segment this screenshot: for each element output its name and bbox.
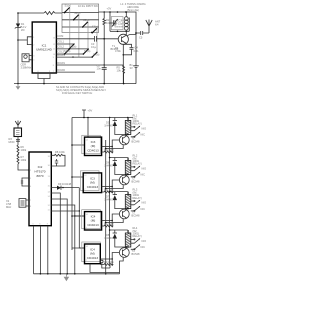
svg-text:BC548: BC548 bbox=[132, 214, 140, 218]
svg-text:470k: 470k bbox=[115, 49, 121, 53]
svg-text:(M): (M) bbox=[91, 144, 96, 148]
svg-text:S1(a): S1(a) bbox=[65, 4, 71, 8]
svg-text:ZD: ZD bbox=[21, 28, 25, 32]
svg-text:+3V: +3V bbox=[107, 7, 112, 11]
svg-text:3.58MHz: 3.58MHz bbox=[21, 66, 32, 70]
svg-text:R8 100k: R8 100k bbox=[55, 150, 65, 154]
svg-text:1N4007: 1N4007 bbox=[104, 124, 114, 128]
svg-text:C4: C4 bbox=[135, 46, 139, 50]
svg-text:S1(b): S1(b) bbox=[70, 44, 76, 48]
svg-text:C5: C5 bbox=[139, 36, 143, 40]
svg-text:R13 10k: R13 10k bbox=[104, 260, 114, 264]
svg-text:N/C: N/C bbox=[141, 173, 146, 177]
svg-text:S3(b): S3(b) bbox=[84, 49, 90, 53]
svg-text:N/O: N/O bbox=[142, 239, 147, 243]
svg-text:BC548: BC548 bbox=[132, 140, 140, 144]
svg-text:RELAY): RELAY) bbox=[133, 122, 142, 126]
svg-text:N/C: N/C bbox=[141, 133, 146, 137]
svg-text:S4(a): S4(a) bbox=[92, 25, 98, 29]
svg-text:BC548: BC548 bbox=[132, 180, 140, 184]
svg-text:CD4013: CD4013 bbox=[87, 149, 99, 153]
svg-text:1N4007: 1N4007 bbox=[104, 236, 114, 240]
svg-text:3V: 3V bbox=[130, 66, 133, 70]
svg-text:RELAY): RELAY) bbox=[133, 196, 142, 200]
svg-text:ROW1: ROW1 bbox=[57, 61, 65, 65]
svg-text:MOD: MOD bbox=[9, 140, 15, 144]
svg-text:100k: 100k bbox=[21, 148, 27, 152]
svg-text:HT9170: HT9170 bbox=[34, 170, 45, 174]
svg-text:COL2: COL2 bbox=[57, 44, 64, 48]
svg-text:S3(a): S3(a) bbox=[83, 18, 89, 22]
svg-text:S4(b): S4(b) bbox=[93, 53, 99, 57]
svg-text:N/O: N/O bbox=[142, 201, 147, 205]
svg-text:N/O: N/O bbox=[142, 167, 147, 171]
svg-text:S2(a): S2(a) bbox=[74, 11, 80, 15]
svg-text:N/C: N/C bbox=[141, 207, 146, 211]
svg-text:(M): (M) bbox=[90, 181, 95, 185]
svg-text:RELAY): RELAY) bbox=[133, 162, 142, 166]
svg-text:10n: 10n bbox=[97, 67, 102, 71]
svg-text:RELAY): RELAY) bbox=[133, 234, 142, 238]
svg-text:(5mm dia): (5mm dia) bbox=[127, 8, 139, 12]
svg-text:BC548: BC548 bbox=[132, 252, 140, 256]
svg-text:CD4013: CD4013 bbox=[87, 223, 99, 227]
svg-text:N/C: N/C bbox=[141, 245, 146, 249]
svg-text:S2(b): S2(b) bbox=[64, 49, 70, 53]
svg-text:0.1µ: 0.1µ bbox=[91, 45, 97, 49]
svg-text:λ/4: λ/4 bbox=[155, 23, 159, 27]
svg-text:(M): (M) bbox=[90, 252, 95, 256]
svg-text:10k: 10k bbox=[117, 69, 122, 73]
svg-text:1N4007: 1N4007 bbox=[104, 164, 114, 168]
svg-text:8870: 8870 bbox=[37, 174, 44, 178]
svg-text:CD4013: CD4013 bbox=[87, 256, 99, 260]
svg-text:COM: COM bbox=[57, 34, 63, 38]
svg-text:COL1: COL1 bbox=[57, 39, 64, 43]
svg-text:ROW2: ROW2 bbox=[57, 68, 65, 72]
svg-text:1N4007: 1N4007 bbox=[104, 198, 114, 202]
svg-text:D9 1N4148: D9 1N4148 bbox=[58, 182, 72, 186]
svg-text:(M): (M) bbox=[91, 219, 96, 223]
svg-text:+9V: +9V bbox=[88, 109, 93, 113]
svg-text:MHz: MHz bbox=[6, 205, 12, 209]
svg-text:CD4013: CD4013 bbox=[87, 185, 99, 189]
svg-text:UM91214D: UM91214D bbox=[36, 48, 52, 52]
svg-text:IC2: IC2 bbox=[38, 165, 43, 169]
svg-text:trimmer: trimmer bbox=[115, 25, 124, 29]
svg-text:10.3m DPDT SW: 10.3m DPDT SW bbox=[78, 4, 98, 8]
svg-text:FOR EACH KEY SWITCH: FOR EACH KEY SWITCH bbox=[62, 91, 92, 95]
svg-text:100k: 100k bbox=[21, 158, 27, 162]
svg-text:N/O: N/O bbox=[142, 127, 147, 131]
